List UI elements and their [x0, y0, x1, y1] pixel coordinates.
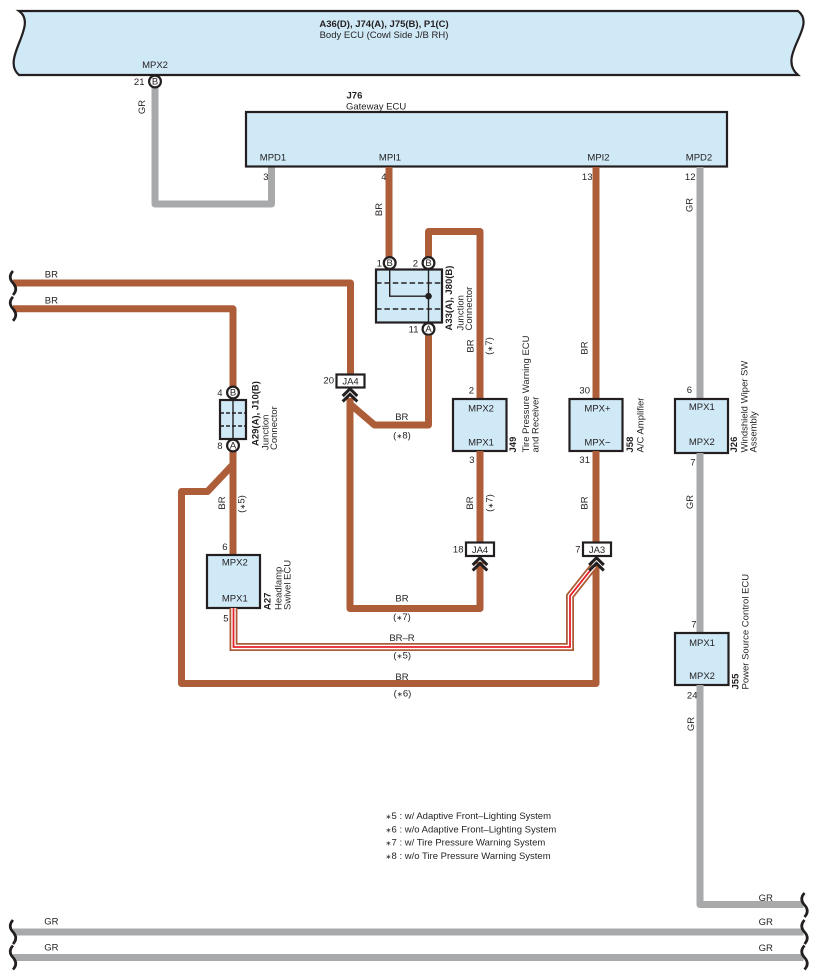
- svg-text:GR: GR: [685, 495, 696, 509]
- svg-text:A27: A27: [263, 593, 274, 610]
- svg-text:GR: GR: [686, 717, 697, 731]
- op ECU J55 Power Source Control ECU: [675, 574, 752, 690]
- svg-text:(∗6): (∗6): [394, 689, 412, 700]
- svg-text:MPX−: MPX−: [584, 438, 611, 449]
- connector JA3 pin 7: [575, 543, 611, 557]
- svg-text:31: 31: [579, 455, 590, 466]
- svg-text:MPX1: MPX1: [222, 594, 248, 605]
- svg-text:Swivel ECU: Swivel ECU: [283, 560, 294, 610]
- svg-text:GR: GR: [137, 100, 148, 114]
- connector circle B pin 1: [384, 257, 396, 269]
- svg-text:11: 11: [409, 325, 419, 336]
- svg-text:MPX2: MPX2: [142, 60, 168, 71]
- svg-text:5: 5: [223, 614, 228, 625]
- svg-text:JA4: JA4: [342, 377, 358, 388]
- svg-text:2: 2: [413, 259, 418, 270]
- svg-text:BR: BR: [395, 594, 408, 605]
- svg-text:BR: BR: [395, 412, 408, 423]
- svg-text:BR: BR: [580, 341, 591, 354]
- connector circle A pin 8: [227, 440, 239, 452]
- svg-text:BR–R: BR–R: [389, 633, 414, 644]
- bus band A36(D) J74(A) J75(B) P1(C) Body ECU (Cowl Side J/B RH): [14, 11, 804, 75]
- svg-text:∗5 : w/ Adaptive Front–Lightin: ∗5 : w/ Adaptive Front–Lighting System: [386, 811, 552, 822]
- svg-text:(∗7): (∗7): [484, 337, 495, 355]
- svg-text:12: 12: [685, 172, 696, 183]
- svg-text:J49: J49: [508, 437, 519, 453]
- wire BR branch A29 pin8 long run to JA3 pin7 (*6): [182, 465, 597, 684]
- junction connector A33(A) J80(B): [376, 266, 475, 331]
- svg-text:Connector: Connector: [269, 406, 280, 450]
- note list: [386, 811, 557, 862]
- wire BR A33 pin2 to J49 pin2: [429, 232, 481, 400]
- svg-text:BR: BR: [217, 496, 228, 509]
- svg-text:B: B: [387, 258, 393, 269]
- connector circle A pin 11: [423, 323, 435, 335]
- svg-text:J76: J76: [347, 91, 363, 102]
- chevron JA4-20: [343, 389, 358, 402]
- op ECU A27 Headlamp Swivel ECU: [207, 555, 294, 610]
- svg-text:GR: GR: [759, 893, 773, 904]
- svg-text:MPD2: MPD2: [686, 153, 712, 164]
- svg-text:(∗7): (∗7): [393, 612, 411, 623]
- chevron JA4-18: [473, 558, 488, 571]
- wire GR bus lower 2: [13, 954, 804, 961]
- svg-text:13: 13: [582, 172, 593, 183]
- svg-text:(∗5): (∗5): [393, 651, 411, 662]
- svg-text:MPX1: MPX1: [689, 402, 715, 413]
- svg-text:MPX2: MPX2: [468, 404, 494, 415]
- svg-text:B: B: [425, 258, 431, 269]
- svg-text:GR: GR: [685, 198, 696, 212]
- break squiggle: [10, 946, 16, 970]
- svg-text:20: 20: [323, 376, 334, 387]
- op ECU J58 A/C Amplifier: [570, 398, 647, 453]
- svg-text:MPD1: MPD1: [260, 153, 286, 164]
- wire GR J55 pin24 exit right: [700, 685, 804, 905]
- svg-text:MPX1: MPX1: [468, 438, 494, 449]
- svg-text:BR: BR: [466, 339, 477, 352]
- chevron JA3-7: [589, 558, 604, 571]
- svg-text:B: B: [152, 77, 158, 88]
- svg-text:GR: GR: [44, 917, 58, 928]
- svg-text:7: 7: [691, 620, 696, 631]
- svg-text:GR: GR: [44, 943, 58, 954]
- op ECU J76 Gateway ECU: [246, 91, 727, 167]
- svg-text:B: B: [230, 388, 236, 399]
- svg-text:Gateway ECU: Gateway ECU: [346, 102, 406, 113]
- break squiggle: [10, 297, 16, 321]
- wire BR A29 pin8 to A27 pin6: [230, 452, 237, 556]
- wire GR bus lower 1: [13, 929, 804, 936]
- break squiggle: [10, 271, 16, 295]
- wire GR J26 pin7 to J55 pin7: [697, 453, 704, 633]
- svg-text:18: 18: [453, 545, 464, 556]
- svg-text:(∗7): (∗7): [485, 494, 496, 512]
- svg-text:MPI2: MPI2: [587, 153, 609, 164]
- connector JA4 pin 18: [453, 543, 494, 557]
- svg-text:8: 8: [217, 441, 222, 452]
- svg-text:3: 3: [263, 172, 268, 183]
- svg-text:4: 4: [217, 388, 222, 399]
- svg-text:J26: J26: [729, 437, 740, 453]
- break squiggle: [802, 920, 808, 944]
- connector circle B pin 21: [149, 76, 161, 88]
- svg-text:MPX1: MPX1: [689, 638, 715, 649]
- svg-text:Assembly: Assembly: [749, 411, 760, 452]
- connector circle B pin 4: [227, 387, 239, 399]
- svg-text:BR: BR: [465, 496, 476, 509]
- svg-text:A: A: [425, 324, 432, 335]
- connector circle B pin 2: [423, 257, 435, 269]
- wire BR A33 pin11 to JA4 pin20 branch (*8): [350, 336, 429, 426]
- svg-text:A/C Amplifier: A/C Amplifier: [636, 398, 647, 453]
- op switch J26 Windshield Wiper SW Assembly: [675, 361, 760, 453]
- wire BR-R A27 pin5 to JA3 pin7 (*5): [234, 566, 595, 647]
- svg-text:30: 30: [579, 386, 590, 397]
- svg-text:J58: J58: [625, 437, 636, 453]
- wire GR from band pin 21B to gateway MPD1 pin 3: [155, 87, 272, 204]
- svg-text:Connector: Connector: [464, 287, 475, 331]
- svg-text:MPX2: MPX2: [689, 437, 715, 448]
- svg-text:(∗5): (∗5): [237, 495, 248, 513]
- svg-text:BR: BR: [45, 296, 58, 307]
- svg-text:7: 7: [690, 458, 695, 469]
- svg-text:2: 2: [469, 386, 474, 397]
- svg-text:A36(D), J74(A), J75(B), P1(C): A36(D), J74(A), J75(B), P1(C): [319, 19, 448, 30]
- svg-text:BR: BR: [45, 270, 58, 281]
- svg-text:∗8 : w/o Tire Pressure Warning: ∗8 : w/o Tire Pressure Warning System: [386, 851, 551, 862]
- wire BR JA4 pin20 down and to JA4 pin18 (*7): [350, 398, 480, 609]
- svg-text:MPX2: MPX2: [222, 558, 248, 569]
- junction connector A29(A) J10(B): [220, 381, 280, 450]
- break squiggle: [802, 946, 808, 970]
- svg-text:MPX2: MPX2: [689, 671, 715, 682]
- svg-text:JA4: JA4: [472, 545, 488, 556]
- svg-text:JA3: JA3: [589, 545, 605, 556]
- svg-text:6: 6: [687, 385, 692, 396]
- svg-text:Power Source Control ECU: Power Source Control ECU: [741, 574, 752, 690]
- svg-text:7: 7: [575, 545, 580, 556]
- svg-text:1: 1: [377, 259, 382, 270]
- wire BR left feed 1 to JA4 pin20: [13, 283, 351, 374]
- break squiggle: [802, 893, 808, 917]
- svg-text:Body ECU (Cowl Side J/B RH): Body ECU (Cowl Side J/B RH): [320, 30, 449, 41]
- svg-text:MPX+: MPX+: [584, 404, 611, 415]
- wire BR MPI1 pin4 to A33 pin1: [386, 167, 393, 258]
- wire BR MPI2 pin13 to J58 pin30: [593, 167, 600, 399]
- svg-text:3: 3: [469, 455, 474, 466]
- break squiggle: [10, 920, 16, 944]
- svg-text:BR: BR: [580, 496, 591, 509]
- op ECU J49 Tire Pressure Warning ECU and Receiver: [453, 335, 542, 452]
- svg-text:∗6 : w/o Adaptive Front–Lighti: ∗6 : w/o Adaptive Front–Lighting System: [386, 824, 557, 835]
- svg-text:A: A: [230, 441, 237, 452]
- wire BR left feed 2 to A29 pin4: [13, 309, 233, 387]
- wire BR J58 pin31 to JA3 pin7: [593, 451, 600, 543]
- svg-text:GR: GR: [759, 917, 773, 928]
- svg-text:MPI1: MPI1: [379, 153, 401, 164]
- svg-text:GR: GR: [759, 943, 773, 954]
- svg-text:(∗8): (∗8): [393, 431, 411, 442]
- svg-text:BR: BR: [374, 203, 385, 216]
- svg-text:24: 24: [687, 691, 698, 702]
- svg-text:BR: BR: [395, 672, 408, 683]
- svg-text:21: 21: [134, 77, 145, 88]
- svg-text:6: 6: [222, 542, 227, 553]
- svg-text:and Receiver: and Receiver: [531, 397, 542, 453]
- connector JA4 pin 20: [323, 375, 364, 388]
- wire GR MPD2 pin12 to J26 pin6: [697, 167, 704, 399]
- svg-text:∗7 : w/ Tire Pressure Warning: ∗7 : w/ Tire Pressure Warning System: [386, 838, 546, 849]
- wire BR J49 pin3 to JA4 pin18: [477, 451, 484, 543]
- svg-text:A33(A), J80(B): A33(A), J80(B): [444, 266, 455, 331]
